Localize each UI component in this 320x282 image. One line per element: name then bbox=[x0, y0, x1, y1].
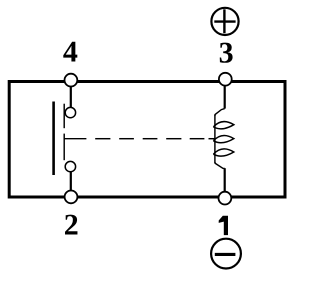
relay body outline bbox=[9, 82, 285, 198]
upper contact circle bbox=[65, 107, 75, 117]
wire stub terminal 3 to coil bbox=[224, 86, 226, 109]
wire stub terminal 4 to upper contact bbox=[70, 86, 72, 108]
lower contact blade bbox=[63, 134, 65, 161]
coil bottom hook bbox=[215, 162, 225, 168]
svg-text:2: 2 bbox=[64, 208, 79, 241]
terminal 1 bbox=[219, 192, 232, 205]
coil turn 2 bbox=[213, 135, 233, 142]
switch armature bar bbox=[52, 102, 55, 176]
lower contact circle bbox=[65, 161, 75, 171]
plus polarity symbol bbox=[211, 8, 238, 35]
mechanical link dashed line bbox=[64, 138, 216, 140]
terminal 4 bbox=[65, 74, 78, 87]
terminal 2 bbox=[65, 191, 78, 204]
wire stub lower contact to terminal 2 bbox=[70, 172, 72, 191]
pin label 1 bbox=[219, 216, 228, 235]
minus polarity symbol bbox=[211, 239, 241, 269]
coil turn 3 bbox=[213, 149, 233, 156]
coil L top hook bbox=[215, 109, 225, 116]
svg-text:3: 3 bbox=[219, 37, 234, 70]
svg-text:4: 4 bbox=[63, 36, 78, 69]
wire stub coil to terminal 1 bbox=[224, 168, 226, 191]
coil turn 1 bbox=[213, 122, 233, 129]
upper contact blade bbox=[63, 104, 65, 129]
terminal 3 bbox=[219, 73, 232, 86]
coil core line bbox=[214, 115, 216, 164]
